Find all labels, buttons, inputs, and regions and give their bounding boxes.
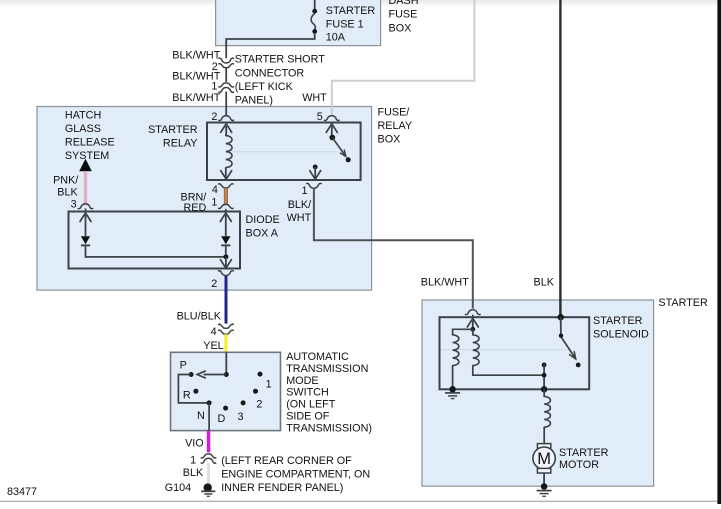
label D bbox=[218, 413, 226, 425]
svg-text:FUSE 1: FUSE 1 bbox=[326, 18, 364, 30]
relay contact bottom arrow (pin 1) bbox=[310, 171, 321, 180]
label FUSE/RELAY BOX bbox=[378, 107, 413, 146]
label pin 1 (diode box) bbox=[211, 197, 217, 209]
svg-text:4: 4 bbox=[212, 184, 218, 196]
connector pin 4 (mode switch) bbox=[219, 324, 234, 334]
svg-text:DASH: DASH bbox=[389, 0, 419, 7]
svg-text:R: R bbox=[183, 389, 191, 401]
svg-text:SIDE OF: SIDE OF bbox=[286, 411, 330, 423]
ground G104 bbox=[201, 483, 215, 496]
connector pin 3 (diode box) bbox=[78, 204, 93, 209]
starter box bbox=[422, 300, 654, 486]
label pin 2 (short connector) bbox=[212, 61, 218, 73]
connector pin 2 (short connector) bbox=[219, 58, 234, 68]
label YEL bbox=[203, 340, 223, 352]
wire P to N bbox=[178, 375, 209, 403]
svg-text:P: P bbox=[180, 360, 187, 372]
ground (solenoid) bbox=[445, 393, 460, 399]
solenoid fixed contact bbox=[542, 363, 547, 390]
wire diode D1 to junction bbox=[86, 246, 226, 257]
solenoid output node bbox=[541, 386, 547, 392]
svg-text:STARTER: STARTER bbox=[326, 5, 376, 17]
label 1 (contact) bbox=[266, 378, 272, 390]
label BLK/WHT (3) bbox=[172, 92, 220, 104]
wire BLK entering starter bbox=[559, 0, 561, 317]
wire to pull-in coil bbox=[453, 329, 473, 335]
label WHT bbox=[302, 92, 327, 104]
label pin 2 (relay) bbox=[211, 111, 217, 123]
svg-text:CONNECTOR: CONNECTOR bbox=[235, 67, 305, 79]
mode switch wiper arm bbox=[204, 374, 227, 376]
wire to hold-in coil bbox=[472, 329, 474, 335]
wire BLK/WHT to starter solenoid bbox=[314, 188, 473, 308]
starter solenoid box bbox=[440, 317, 590, 389]
diode box A bbox=[69, 212, 241, 269]
wire coil to motor bbox=[543, 427, 545, 444]
connector pin 1 (relay output) bbox=[307, 183, 322, 188]
wire BRN/RED bbox=[224, 188, 227, 205]
wire VIO bbox=[207, 431, 211, 453]
label 2 (contact) bbox=[256, 399, 262, 411]
svg-text:FUSE: FUSE bbox=[389, 9, 418, 21]
svg-text:2: 2 bbox=[256, 399, 262, 411]
relay contact arrow (pin 5) bbox=[326, 124, 337, 132]
scrollbar right edge bbox=[717, 0, 721, 504]
connector pin 4 (relay) bbox=[219, 184, 234, 188]
svg-text:1: 1 bbox=[211, 197, 217, 209]
svg-text:DIODE: DIODE bbox=[246, 214, 280, 226]
svg-text:83477: 83477 bbox=[7, 486, 37, 498]
svg-text:GLASS: GLASS bbox=[65, 123, 101, 135]
solenoid coil junction bbox=[470, 327, 475, 332]
label STARTER SHORT CONNECTOR (LEFT KICK PANEL) bbox=[235, 54, 325, 107]
svg-text:(ON LEFT: (ON LEFT bbox=[286, 399, 336, 411]
contact 3 bbox=[241, 400, 246, 405]
svg-text:SYSTEM: SYSTEM bbox=[65, 150, 109, 162]
svg-text:BLU/BLK: BLU/BLK bbox=[177, 311, 222, 323]
mode switch wiper arrow bbox=[197, 371, 206, 378]
connector into starter solenoid bbox=[466, 310, 481, 315]
label (LEFT REAR CORNER OF ENGINE COMPARTMENT, ON INNER FENDER PANEL) bbox=[221, 455, 370, 494]
wire YEL bbox=[224, 334, 228, 352]
label pin 4 (mode switch) bbox=[211, 326, 217, 338]
dash fuse box bbox=[216, 0, 381, 46]
ground node (motor) bbox=[541, 483, 548, 490]
connector pin 2 (relay) bbox=[219, 116, 234, 121]
automatic transmission mode switch box bbox=[171, 352, 281, 430]
label VIO bbox=[185, 437, 204, 449]
label DIODE BOX A bbox=[246, 214, 280, 240]
relay movable contact bbox=[329, 135, 350, 163]
wire junction to pin 2 bbox=[225, 257, 227, 268]
relay coil bottom arrow (pin 4) bbox=[221, 171, 232, 180]
solenoid pull-in coil bbox=[453, 335, 459, 366]
svg-text:BLK/: BLK/ bbox=[288, 199, 311, 211]
svg-text:PNK/: PNK/ bbox=[53, 174, 78, 186]
faint coil-contact link bbox=[228, 151, 337, 153]
label pin 3 (diode box) bbox=[71, 198, 77, 210]
fuse/relay box bbox=[37, 107, 372, 291]
label BLK/WHT (starter) bbox=[421, 277, 469, 289]
svg-text:(LEFT REAR CORNER OF: (LEFT REAR CORNER OF bbox=[221, 455, 352, 467]
svg-text:BLK/WHT: BLK/WHT bbox=[421, 277, 469, 289]
svg-text:PANEL): PANEL) bbox=[235, 95, 273, 107]
svg-text:RELAY: RELAY bbox=[378, 120, 413, 132]
junction node (diode box) bbox=[223, 254, 228, 259]
label pin 4 (relay) bbox=[212, 184, 218, 196]
svg-text:BOX A: BOX A bbox=[246, 227, 279, 239]
svg-text:SWITCH: SWITCH bbox=[286, 387, 329, 399]
wire BLU/BLK bbox=[225, 276, 228, 324]
svg-text:3: 3 bbox=[71, 198, 77, 210]
label DASH FUSE BOX bbox=[389, 0, 419, 35]
label G104 bbox=[165, 482, 191, 494]
svg-text:STARTER: STARTER bbox=[148, 124, 198, 136]
wire into fuse bbox=[314, 0, 316, 10]
label AUTOMATIC TRANSMISSION MODE SWITCH (ON LEFT SIDE OF TRANSMISSION) bbox=[286, 351, 372, 434]
label STARTER FUSE 1 10A bbox=[326, 5, 376, 43]
starter motor M1 bbox=[533, 444, 555, 473]
svg-text:WHT: WHT bbox=[287, 212, 312, 224]
label PNK/BLK bbox=[53, 174, 78, 198]
label pin 1 (relay output) bbox=[301, 185, 307, 197]
connector pin 5 (relay) bbox=[325, 116, 340, 121]
svg-text:BLK: BLK bbox=[57, 186, 78, 198]
bottom frame line bbox=[0, 501, 717, 502]
solenoid contact blade bbox=[561, 337, 580, 367]
contact D bbox=[223, 406, 228, 411]
svg-text:BOX: BOX bbox=[378, 134, 401, 146]
svg-text:1: 1 bbox=[266, 378, 272, 390]
label BLK bbox=[534, 277, 555, 289]
svg-text:M: M bbox=[537, 450, 551, 468]
svg-text:TRANSMISSION): TRANSMISSION) bbox=[286, 422, 372, 434]
svg-text:YEL: YEL bbox=[203, 340, 223, 352]
wire pin 1 to diode D2 bbox=[225, 215, 227, 236]
svg-text:1: 1 bbox=[211, 80, 217, 92]
svg-text:4: 4 bbox=[211, 326, 217, 338]
svg-text:STARTER SHORT: STARTER SHORT bbox=[235, 54, 325, 66]
wire fuse to short connector bbox=[226, 34, 315, 59]
wire pin 3 to diode D1 bbox=[85, 215, 87, 236]
svg-text:STARTER: STARTER bbox=[593, 315, 643, 327]
label BLK/WHT (relay output) bbox=[287, 199, 312, 224]
connector pin 1 (G104) bbox=[201, 454, 216, 463]
svg-text:N: N bbox=[197, 410, 205, 422]
svg-text:AUTOMATIC: AUTOMATIC bbox=[286, 351, 349, 363]
arrow to hatch glass release system bbox=[79, 159, 92, 171]
label BRN/RED bbox=[181, 191, 207, 214]
label 3 (contact) bbox=[238, 411, 244, 423]
label BLK (ground) bbox=[183, 467, 204, 479]
wire BLK to ground bbox=[207, 463, 210, 483]
svg-text:MOTOR: MOTOR bbox=[559, 459, 599, 471]
solenoid entry arrow bbox=[467, 315, 478, 327]
svg-text:5: 5 bbox=[317, 111, 323, 123]
label 83477 bbox=[7, 486, 37, 498]
contact R bbox=[193, 389, 198, 394]
svg-text:RELEASE: RELEASE bbox=[65, 137, 115, 149]
svg-text:D: D bbox=[218, 413, 226, 425]
connector pin 2 (diode box) bbox=[219, 271, 234, 276]
label BLU/BLK bbox=[177, 311, 222, 323]
svg-text:TRANSMISSION: TRANSMISSION bbox=[286, 363, 368, 375]
svg-text:WHT: WHT bbox=[302, 92, 327, 104]
label STARTER MOTOR bbox=[559, 447, 609, 471]
wire pull-in coil to ground bbox=[452, 366, 454, 390]
svg-text:SOLENOID: SOLENOID bbox=[593, 328, 649, 340]
label STARTER (box) bbox=[658, 297, 708, 309]
svg-text:3: 3 bbox=[238, 411, 244, 423]
wire solenoid to motor coil bbox=[543, 389, 545, 396]
pin 3 entry arrow bbox=[80, 208, 91, 221]
label STARTER RELAY bbox=[148, 124, 198, 150]
svg-text:10A: 10A bbox=[326, 31, 346, 43]
label BLK/WHT (2) bbox=[172, 71, 220, 83]
svg-text:HATCH: HATCH bbox=[65, 110, 101, 122]
wire PNK/BLK bbox=[84, 171, 87, 205]
wire motor to ground bbox=[543, 473, 545, 487]
relay K1 STARTER RELAY box bbox=[207, 123, 361, 181]
label R bbox=[183, 389, 191, 401]
label BLK/WHT (1) bbox=[172, 49, 220, 61]
solenoid hold-in coil bbox=[473, 335, 479, 366]
diode D2 bbox=[221, 236, 230, 245]
faint solenoid link line bbox=[441, 349, 568, 351]
wire diode D2 to junction bbox=[225, 246, 227, 257]
pin 1 entry arrow bbox=[220, 209, 231, 222]
svg-text:BLK: BLK bbox=[183, 467, 204, 479]
fuse STARTER FUSE 1 bbox=[311, 9, 317, 34]
label P bbox=[180, 360, 187, 372]
relay coil bbox=[226, 136, 232, 168]
svg-text:(LEFT KICK: (LEFT KICK bbox=[235, 81, 294, 93]
label HATCH GLASS RELEASE SYSTEM bbox=[65, 110, 115, 163]
label pin 1 (short connector) bbox=[211, 80, 217, 92]
label N bbox=[197, 410, 205, 422]
wire short connector to relay pin 2 bbox=[225, 92, 227, 117]
label STARTER SOLENOID bbox=[593, 315, 649, 340]
wire N out of mode switch bbox=[208, 403, 210, 431]
svg-text:MODE: MODE bbox=[286, 375, 318, 387]
svg-text:RED: RED bbox=[184, 202, 207, 214]
wire WHT bbox=[332, 0, 475, 115]
pin 2 exit arrow bbox=[220, 260, 231, 269]
svg-text:2: 2 bbox=[211, 111, 217, 123]
relay fixed contact (pin 1) bbox=[313, 165, 318, 179]
label pin 5 (relay) bbox=[317, 111, 323, 123]
svg-text:ENGINE COMPARTMENT, ON: ENGINE COMPARTMENT, ON bbox=[221, 469, 370, 481]
label pin 1 (G104) bbox=[190, 454, 196, 466]
svg-text:2: 2 bbox=[211, 278, 217, 290]
wire relay coil to pin 4 bbox=[225, 168, 227, 179]
wire to solenoid coils bbox=[472, 321, 474, 330]
ground (motor) bbox=[537, 491, 552, 497]
wire into mode switch bbox=[225, 352, 227, 374]
solenoid movable contact bbox=[559, 317, 563, 338]
solenoid supply node bbox=[558, 314, 564, 320]
contact N bbox=[207, 400, 212, 405]
svg-text:1: 1 bbox=[190, 454, 196, 466]
mode switch wiper node bbox=[224, 372, 229, 377]
svg-text:1: 1 bbox=[301, 185, 307, 197]
svg-text:STARTER: STARTER bbox=[658, 297, 708, 309]
contact 2 bbox=[253, 389, 258, 394]
svg-text:VIO: VIO bbox=[185, 437, 204, 449]
svg-text:FUSE/: FUSE/ bbox=[378, 107, 410, 119]
svg-text:BLK/WHT: BLK/WHT bbox=[172, 92, 220, 104]
ground node (solenoid) bbox=[449, 386, 456, 393]
diode D1 bbox=[81, 236, 90, 245]
connector pin 1 (diode box) bbox=[219, 204, 234, 208]
connector pin 1 (short connector) bbox=[219, 83, 234, 92]
svg-text:STARTER: STARTER bbox=[559, 447, 609, 459]
svg-text:RELAY: RELAY bbox=[163, 137, 198, 149]
relay coil terminal arrow (pin 2) bbox=[221, 124, 232, 132]
wire to relay coil bbox=[225, 126, 227, 136]
wire pin 5 to contact bbox=[331, 126, 333, 137]
contact P bbox=[189, 372, 194, 377]
solenoid output junction bbox=[542, 373, 547, 378]
contact 1 bbox=[258, 372, 263, 377]
label pin 2 (diode box) bbox=[211, 278, 217, 290]
starter motor field coil bbox=[544, 396, 550, 427]
svg-text:G104: G104 bbox=[165, 482, 191, 494]
wire hold-in coil to contact bbox=[473, 366, 544, 376]
svg-text:BLK: BLK bbox=[534, 277, 555, 289]
svg-text:BLK/WHT: BLK/WHT bbox=[172, 49, 220, 61]
wire through short connector bbox=[225, 68, 227, 82]
svg-text:BOX: BOX bbox=[389, 23, 412, 35]
svg-text:INNER FENDER PANEL): INNER FENDER PANEL) bbox=[221, 482, 343, 494]
